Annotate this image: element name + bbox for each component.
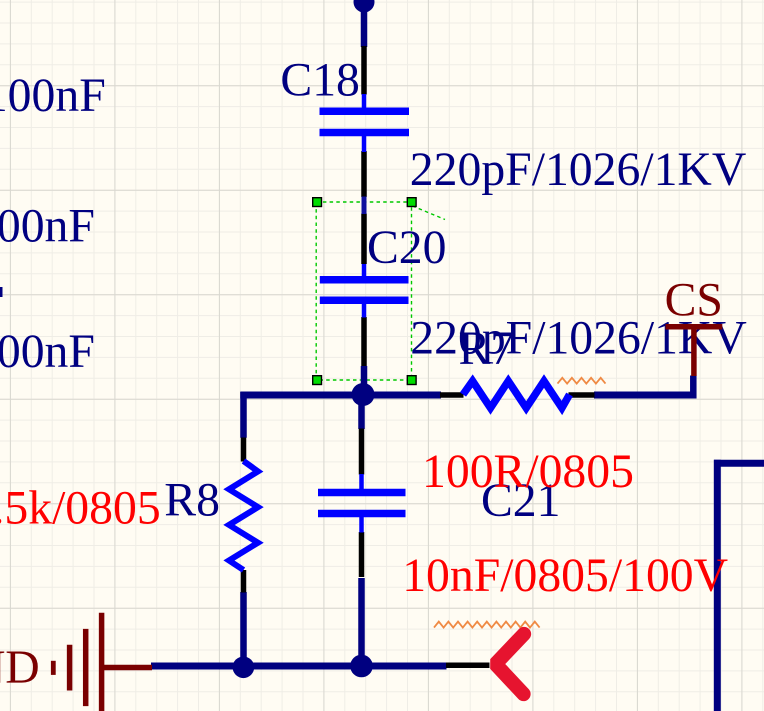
svg-text:100nF: 100nF bbox=[0, 200, 95, 253]
svg-text:100nF: 100nF bbox=[0, 69, 106, 122]
svg-text:R7: R7 bbox=[459, 322, 515, 375]
svg-text:C20: C20 bbox=[367, 221, 447, 274]
svg-text:GND: GND bbox=[0, 641, 40, 694]
svg-text:CS: CS bbox=[665, 273, 723, 326]
svg-text:R8: R8 bbox=[164, 473, 220, 526]
svg-text:10nF/0805/100V: 10nF/0805/100V bbox=[402, 549, 728, 602]
svg-text:C18: C18 bbox=[280, 53, 360, 106]
svg-text:100R/0805: 100R/0805 bbox=[422, 445, 634, 498]
svg-text:1.5k/0805: 1.5k/0805 bbox=[0, 482, 161, 535]
svg-text:100nF: 100nF bbox=[0, 325, 95, 378]
svg-text:220pF/1026/1KV: 220pF/1026/1KV bbox=[410, 143, 747, 196]
